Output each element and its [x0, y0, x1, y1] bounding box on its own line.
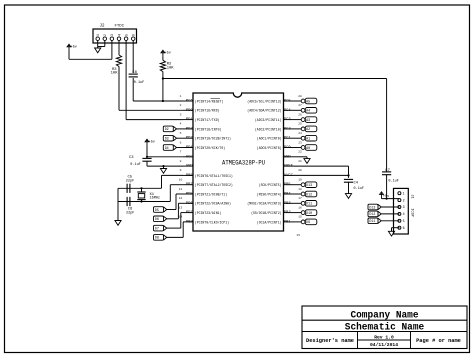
svg-text:PB5: PB5 [284, 183, 292, 187]
svg-text:FTDI: FTDI [115, 25, 125, 29]
svg-text:(MOSI/OC2A/PCINT3): (MOSI/OC2A/PCINT3) [247, 202, 281, 207]
svg-text:9: 9 [180, 169, 182, 172]
svg-text:(PCINT0/CLKO/ICP1): (PCINT0/CLKO/ICP1) [195, 220, 229, 225]
svg-text:4: 4 [180, 123, 182, 126]
svg-text:0.1uF: 0.1uF [134, 81, 145, 85]
svg-text:PB4: PB4 [284, 193, 292, 197]
svg-text:5: 5 [124, 34, 128, 36]
svg-text:PC6: PC6 [186, 100, 194, 104]
svg-text:3: 3 [403, 205, 405, 209]
svg-text:D13: D13 [306, 184, 312, 188]
svg-text:D12: D12 [369, 213, 375, 217]
svg-text:(SCK/PCINT5): (SCK/PCINT5) [259, 183, 282, 188]
svg-text:Page # or name: Page # or name [416, 338, 461, 344]
svg-text:D11: D11 [306, 203, 313, 207]
svg-text:21: 21 [298, 160, 302, 163]
svg-text:(SS/OC1B/PCINT2): (SS/OC1B/PCINT2) [251, 211, 281, 216]
svg-text:0.1uF: 0.1uF [354, 187, 365, 191]
svg-text:D2: D2 [165, 128, 169, 132]
svg-text:A1: A1 [306, 138, 311, 142]
svg-text:A3: A3 [306, 119, 310, 123]
svg-text:PC4: PC4 [284, 109, 292, 113]
svg-text:PC5: PC5 [284, 100, 292, 104]
svg-text:2: 2 [180, 104, 182, 107]
svg-text:22: 22 [298, 151, 302, 154]
svg-text:PD1: PD1 [186, 118, 194, 122]
svg-text:A2: A2 [306, 128, 310, 132]
svg-text:11: 11 [179, 188, 183, 191]
svg-text:16: 16 [298, 206, 302, 209]
svg-text:24: 24 [298, 132, 302, 135]
svg-text:J1: J1 [410, 194, 414, 198]
svg-text:(OC1A/PCINT1): (OC1A/PCINT1) [257, 220, 282, 225]
svg-text:+5v: +5v [383, 195, 390, 199]
svg-text:23: 23 [298, 141, 302, 144]
svg-text:3: 3 [110, 34, 114, 36]
svg-text:D10: D10 [306, 212, 312, 216]
svg-text:PB6: PB6 [186, 174, 194, 178]
svg-text:27: 27 [298, 104, 302, 107]
svg-text:C4: C4 [354, 181, 359, 185]
svg-text:D13: D13 [369, 206, 375, 210]
svg-text:6: 6 [180, 141, 182, 144]
svg-text:D11: D11 [369, 220, 376, 224]
svg-text:22pF: 22pF [126, 180, 135, 184]
svg-text:PD0: PD0 [186, 109, 194, 113]
svg-text:PD2: PD2 [186, 127, 194, 131]
svg-text:D7: D7 [155, 227, 159, 231]
svg-text:(PCINT16/RXD): (PCINT16/RXD) [195, 109, 220, 114]
svg-text:(PCINT22/OC0A/AIN0): (PCINT22/OC0A/AIN0) [195, 202, 231, 207]
svg-text:D3: D3 [165, 138, 169, 142]
svg-text:(ADC0/PCINT8): (ADC0/PCINT8) [257, 146, 282, 151]
svg-text:(PCINT7/XTAL2/TOSC2): (PCINT7/XTAL2/TOSC2) [195, 183, 233, 188]
svg-text:PD7: PD7 [186, 211, 193, 215]
svg-text:17: 17 [298, 197, 302, 200]
svg-text:4: 4 [403, 212, 405, 216]
svg-text:(PCINT20/XCK/T0): (PCINT20/XCK/T0) [195, 146, 225, 151]
svg-text:PB2: PB2 [284, 211, 292, 215]
svg-text:22pF: 22pF [126, 212, 135, 216]
svg-text:28: 28 [298, 95, 302, 98]
svg-text:7: 7 [180, 151, 182, 154]
svg-text:A5: A5 [306, 100, 310, 104]
svg-text:PC2: PC2 [284, 127, 292, 131]
svg-text:D4: D4 [165, 147, 170, 151]
svg-text:1: 1 [96, 34, 100, 36]
svg-text:15: 15 [296, 234, 300, 237]
svg-text:D5: D5 [155, 209, 159, 213]
svg-text:(MISO/PCINT4): (MISO/PCINT4) [257, 192, 282, 197]
svg-text:VCC: VCC [186, 155, 194, 159]
svg-text:20: 20 [298, 169, 302, 172]
svg-text:1: 1 [403, 191, 405, 195]
svg-text:(ADC3/PCINT11): (ADC3/PCINT11) [255, 118, 282, 123]
svg-text:+5v: +5v [71, 46, 78, 50]
svg-text:GND: GND [186, 165, 194, 169]
svg-text:AREF: AREF [284, 165, 294, 169]
svg-text:10K: 10K [167, 66, 175, 70]
svg-text:26: 26 [298, 113, 302, 116]
svg-text:PC1: PC1 [284, 137, 292, 141]
svg-text:(ADC1/PCINT9): (ADC1/PCINT9) [257, 137, 282, 142]
svg-text:16MHz: 16MHz [150, 197, 161, 201]
svg-text:D8: D8 [155, 237, 159, 241]
svg-text:1: 1 [180, 95, 182, 98]
svg-text:19: 19 [298, 179, 302, 182]
svg-text:PD6: PD6 [186, 202, 194, 206]
svg-text:25: 25 [298, 123, 302, 126]
svg-text:PD4: PD4 [186, 146, 194, 150]
svg-text:Rev 1.0: Rev 1.0 [374, 335, 394, 341]
svg-text:PD3: PD3 [186, 137, 194, 141]
svg-text:ATMEGA328P-PU: ATMEGA328P-PU [222, 160, 265, 167]
svg-text:PB3: PB3 [284, 202, 292, 206]
svg-text:6: 6 [132, 34, 136, 36]
svg-text:Schematic Name: Schematic Name [345, 321, 424, 333]
svg-text:A0: A0 [306, 147, 310, 151]
svg-text:2: 2 [103, 34, 107, 36]
svg-text:C5: C5 [128, 175, 133, 179]
svg-text:PB0: PB0 [186, 220, 194, 224]
svg-text:(PCINT6/XTAL1/TOSC1): (PCINT6/XTAL1/TOSC1) [195, 174, 233, 179]
svg-text:+5v: +5v [149, 141, 156, 145]
svg-text:(PCINT23/AIN1): (PCINT23/AIN1) [195, 211, 222, 216]
svg-text:GND: GND [284, 155, 292, 159]
svg-text:+5v: +5v [165, 52, 172, 56]
svg-text:(PCINT19/OC2B/INT1): (PCINT19/OC2B/INT1) [195, 137, 231, 142]
svg-text:PC0: PC0 [284, 146, 292, 150]
svg-text:(ADC4/SDA/PCINT12): (ADC4/SDA/PCINT12) [247, 109, 281, 114]
svg-text:(PCINT18/INT0): (PCINT18/INT0) [195, 127, 222, 132]
svg-text:13: 13 [179, 206, 183, 209]
svg-text:18: 18 [298, 188, 302, 191]
svg-text:C7: C7 [385, 169, 390, 173]
svg-text:6: 6 [403, 226, 405, 230]
svg-text:8: 8 [180, 160, 182, 163]
svg-text:D9: D9 [306, 221, 310, 225]
svg-text:2: 2 [403, 198, 405, 202]
svg-text:D12: D12 [306, 193, 312, 197]
svg-text:Designer's name: Designer's name [306, 338, 354, 344]
svg-text:Company Name: Company Name [350, 311, 418, 322]
svg-text:5: 5 [403, 219, 405, 223]
svg-text:15: 15 [298, 216, 302, 219]
svg-text:PB7: PB7 [186, 183, 193, 187]
svg-text:(PCINT14/RESET): (PCINT14/RESET) [195, 99, 224, 104]
svg-text:0.1uF: 0.1uF [130, 163, 141, 167]
svg-text:C6: C6 [128, 207, 133, 211]
svg-text:10: 10 [179, 179, 183, 182]
svg-text:C8: C8 [132, 71, 137, 75]
svg-text:3: 3 [180, 113, 182, 116]
svg-text:PC3: PC3 [284, 118, 292, 122]
svg-text:ICSP: ICSP [410, 208, 414, 216]
svg-text:10K: 10K [111, 71, 119, 75]
svg-text:J2: J2 [100, 25, 106, 29]
svg-text:PB1: PB1 [284, 220, 292, 224]
svg-text:(ADC5/SCL/PCINT13): (ADC5/SCL/PCINT13) [247, 99, 281, 104]
svg-text:A4: A4 [306, 110, 311, 114]
svg-text:0.1uF: 0.1uF [388, 180, 399, 184]
svg-text:AVCC: AVCC [284, 174, 294, 178]
svg-text:4: 4 [117, 34, 121, 36]
svg-text:D6: D6 [155, 218, 159, 222]
svg-text:(ADC2/PCINT10): (ADC2/PCINT10) [255, 127, 282, 132]
svg-text:5: 5 [180, 132, 182, 135]
svg-text:PD5: PD5 [186, 193, 194, 197]
svg-text:(PCINT21/OC0B/T1): (PCINT21/OC0B/T1) [195, 192, 227, 197]
svg-text:04/11/2014: 04/11/2014 [370, 342, 398, 348]
svg-text:(PCINT17/TXD): (PCINT17/TXD) [195, 118, 220, 123]
svg-text:12: 12 [179, 197, 183, 200]
svg-text:C3: C3 [129, 156, 134, 160]
